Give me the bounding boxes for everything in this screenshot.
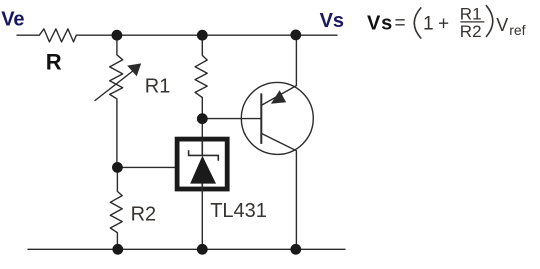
svg-text:V: V <box>496 15 508 35</box>
svg-text:R: R <box>46 50 62 75</box>
svg-text:R2: R2 <box>460 22 482 41</box>
svg-text:R1: R1 <box>460 4 482 23</box>
svg-text:R2: R2 <box>131 203 157 225</box>
svg-text:TL431: TL431 <box>210 200 267 222</box>
svg-text:R1: R1 <box>145 76 171 98</box>
svg-text:ref: ref <box>509 22 525 38</box>
svg-text:1: 1 <box>423 14 434 35</box>
svg-text:+: + <box>438 14 449 35</box>
svg-text:=: = <box>395 13 406 34</box>
svg-text:Vs: Vs <box>367 13 393 35</box>
svg-text:Ve: Ve <box>1 8 24 30</box>
svg-text:Vs: Vs <box>320 10 344 32</box>
